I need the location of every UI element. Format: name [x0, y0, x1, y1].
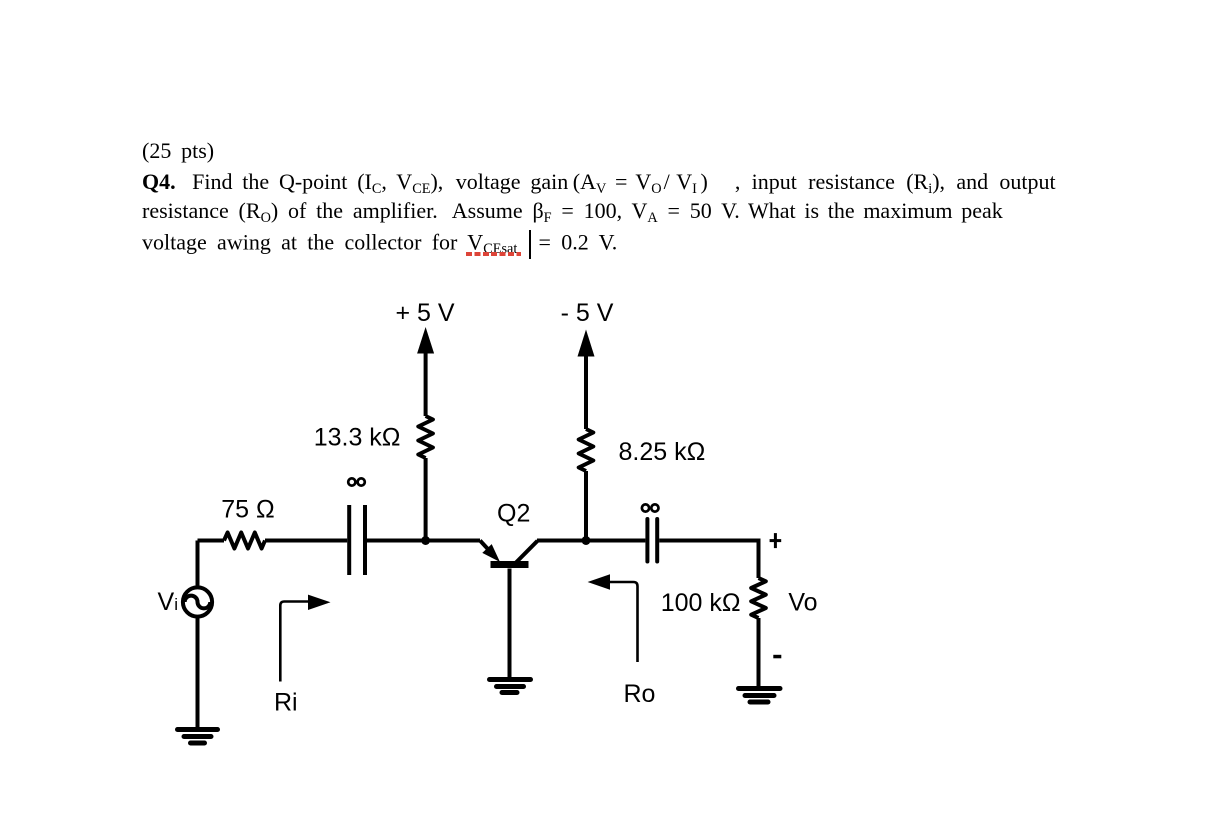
svg-text:Vi: Vi — [158, 588, 178, 616]
svg-text:75 Ω: 75 Ω — [221, 496, 274, 524]
svg-text:13.3 kΩ: 13.3 kΩ — [314, 424, 401, 452]
wire R13.3k to node J1 — [424, 458, 428, 541]
problem statement text — [142, 140, 214, 162]
supply +5V arrow — [417, 327, 434, 416]
wire Vi bottom lead — [196, 617, 200, 729]
label plus sign — [770, 533, 782, 548]
capacitor C1 — [349, 505, 365, 575]
svg-text:Vo: Vo — [788, 589, 817, 617]
svg-text:Q2: Q2 — [497, 500, 530, 528]
wire Vi to R input — [198, 539, 225, 543]
resistor 100k — [751, 578, 766, 618]
transistor Q2 base bar — [491, 561, 529, 568]
wire C2 to output corner — [659, 539, 758, 543]
svg-text:Ri: Ri — [274, 689, 298, 717]
transistor Q2 collector — [516, 541, 538, 563]
resistor 8.25k — [579, 429, 594, 471]
transistor Q2 base lead — [508, 569, 512, 680]
wire R to C1 — [265, 539, 347, 543]
Ro measurement arrow — [588, 574, 638, 662]
supply -5V arrow — [578, 330, 595, 430]
node junction J2 — [582, 536, 591, 545]
wire R100k to ground — [757, 618, 761, 688]
wire collector to J2 — [537, 539, 645, 543]
resistor 13.3k — [418, 416, 433, 458]
wire Vi top lead — [196, 541, 200, 588]
label infinity C1 — [348, 478, 365, 485]
label minus sign — [773, 655, 781, 659]
svg-text:Ro: Ro — [624, 680, 656, 708]
wire output corner down — [757, 539, 761, 579]
node junction J1 — [421, 536, 430, 545]
transistor Q2 emitter with arrow — [480, 541, 500, 563]
red spell-check underline under VCEsat — [466, 252, 521, 255]
svg-text:+ 5 V: + 5 V — [395, 299, 454, 327]
ground G3 — [739, 689, 781, 703]
ground G1 — [178, 730, 218, 744]
Ri measurement arrow — [280, 595, 330, 682]
label infinity C2 — [642, 504, 659, 511]
wire C1 to emitter — [367, 539, 480, 543]
svg-text:100 kΩ: 100 kΩ — [661, 589, 741, 617]
svg-text:- 5 V: - 5 V — [561, 299, 614, 327]
ground G2 — [490, 680, 531, 693]
capacitor C2 — [647, 519, 657, 562]
source Vi — [183, 587, 212, 616]
resistor 75 ohm — [224, 533, 265, 549]
svg-text:8.25 kΩ: 8.25 kΩ — [619, 438, 706, 466]
wire R8.25k to node J2 — [584, 471, 588, 541]
